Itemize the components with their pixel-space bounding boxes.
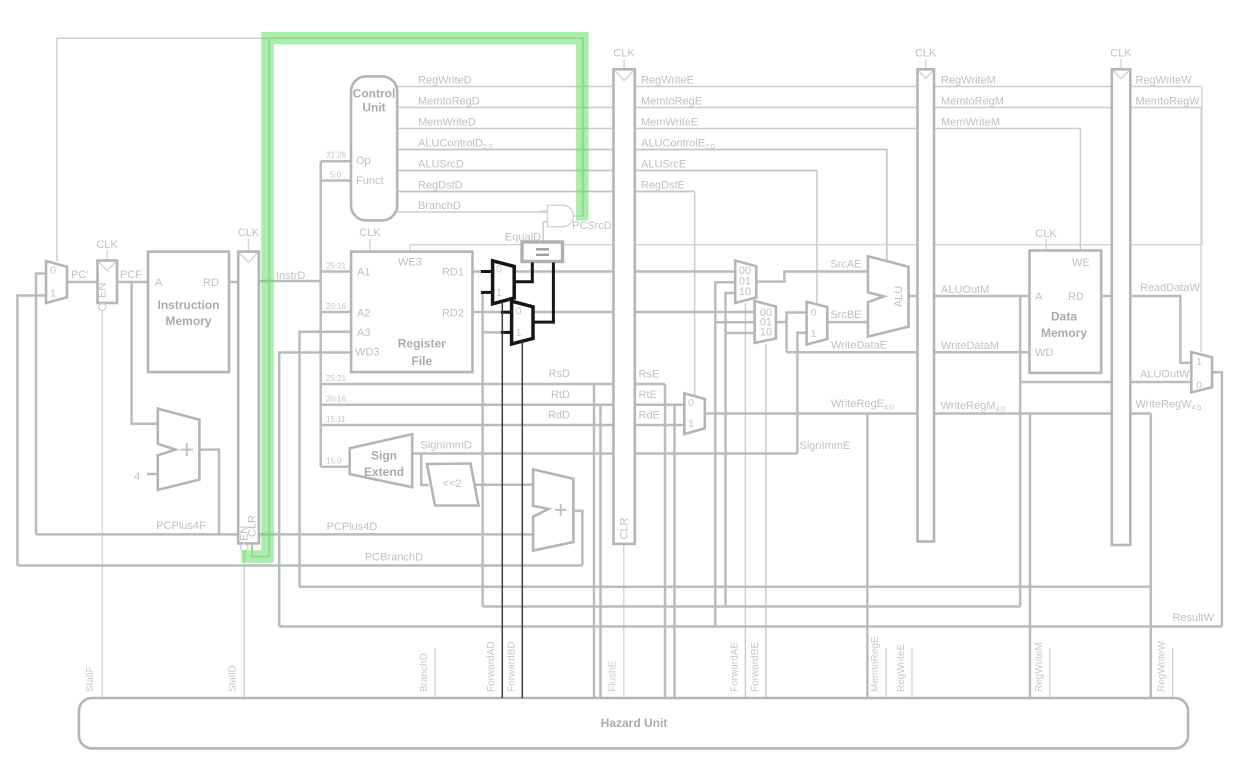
- svg-text:RegWriteM: RegWriteM: [1034, 642, 1045, 692]
- svg-text:<<2: <<2: [443, 478, 462, 490]
- svg-text:20:16: 20:16: [326, 302, 347, 311]
- wire PCPlus4F/PCPlus4D row: [36, 533, 533, 536]
- svg-text:RegDstE: RegDstE: [641, 180, 685, 192]
- wire RegWriteD/E/M/W row: [397, 86, 1202, 88]
- svg-text:SignImmD: SignImmD: [421, 440, 472, 452]
- adder PC+4: [158, 409, 200, 490]
- svg-text:CLK: CLK: [359, 227, 381, 239]
- svg-text:Register: Register: [398, 337, 446, 351]
- svg-text:A1: A1: [357, 267, 370, 279]
- svg-text:EqualD: EqualD: [505, 232, 541, 244]
- svg-text:MemtoRegW: MemtoRegW: [1136, 96, 1201, 108]
- svg-text:EN: EN: [239, 526, 251, 541]
- wire RegDstE select to RegDst mux: [694, 192, 696, 396]
- wire CLK tick ID/EX register: [623, 59, 625, 69]
- svg-text:RsE: RsE: [639, 369, 660, 381]
- svg-text:A: A: [1035, 291, 1043, 303]
- clk triangle MEM/WB: [1113, 71, 1129, 79]
- clk triangle PC register: [99, 262, 116, 271]
- svg-text:Control: Control: [353, 87, 396, 101]
- wire adder output PCPlus4F loop: [199, 450, 219, 535]
- wire ALUOutM decode stub to mux2 input 1: [483, 331, 503, 334]
- wire BranchD row: [397, 211, 548, 213]
- wire RD1 row to forward mux A: [473, 270, 736, 273]
- instruction memory box: [148, 252, 229, 373]
- equality comparator box: [522, 242, 563, 262]
- svg-text:WriteDataM: WriteDataM: [941, 340, 999, 352]
- svg-text:1: 1: [1196, 356, 1202, 368]
- svg-text:BranchD: BranchD: [419, 653, 430, 692]
- highlight green PCSrcD to CLR path: [242, 38, 583, 556]
- svg-text:StallD: StallD: [228, 665, 239, 692]
- svg-text:0: 0: [50, 265, 56, 277]
- mux equality forward B (black): [512, 301, 533, 344]
- control unit rounded box: [351, 76, 397, 220]
- wire PCSrcD to PC mux select: [57, 38, 583, 261]
- wire RegDstD/E row: [397, 191, 695, 193]
- svg-text:ReadDataW: ReadDataW: [1140, 282, 1201, 294]
- wire RsD tap to hazard: [593, 384, 596, 698]
- svg-text:PCPlus4F: PCPlus4F: [156, 520, 206, 532]
- svg-text:WriteRegW4:0: WriteRegW4:0: [1136, 399, 1202, 413]
- mux result (1/0): [1191, 352, 1212, 392]
- plus sign branch adder: [555, 504, 567, 516]
- wire FlushE to ID/EX CLR: [623, 544, 625, 698]
- wire branch adder output PCBranchD loop: [573, 511, 582, 566]
- wire WD3 from ResultW: [279, 353, 351, 627]
- wire ALUSrcE select to SrcB mux: [816, 171, 818, 305]
- svg-text:StallF: StallF: [85, 666, 96, 692]
- wire MemWriteD/E/M row: [397, 128, 1080, 130]
- black stub RD2 into mux B input 0: [501, 311, 512, 314]
- svg-text:0: 0: [811, 307, 817, 319]
- svg-text:FlushE: FlushE: [608, 661, 619, 692]
- svg-text:Op: Op: [356, 155, 371, 167]
- svg-text:RegWriteE: RegWriteE: [896, 644, 907, 692]
- svg-text:MemWriteE: MemWriteE: [641, 117, 698, 129]
- wire WriteRegE from RegDst mux: [705, 412, 1151, 415]
- svg-text:ForwardBD: ForwardBD: [506, 641, 517, 692]
- wire Op field to control unit: [321, 160, 351, 163]
- wire EqualD comparator to AND gate: [543, 222, 547, 241]
- black select ForwardBD to hazard: [521, 342, 523, 698]
- register PC with EN: [98, 261, 118, 304]
- register MEM/WB: [1112, 69, 1131, 545]
- wire constant 4 into adder: [147, 473, 158, 476]
- svg-text:25:21: 25:21: [326, 374, 347, 383]
- wire data memory RD to MEM/WB and ReadDataW: [1101, 296, 1191, 363]
- wire A1 field 25:21: [321, 270, 351, 273]
- svg-text:ForwardAE: ForwardAE: [729, 642, 740, 692]
- svg-text:RegWriteM: RegWriteM: [941, 75, 996, 87]
- svg-text:1: 1: [496, 287, 502, 299]
- wire MemtoRegE hazard stub: [885, 648, 887, 698]
- clk triangle EX/MEM: [919, 71, 933, 79]
- wire CLK tick data memory: [1045, 239, 1047, 251]
- svg-text:MemWriteD: MemWriteD: [418, 117, 476, 129]
- wire ALUOutM feedback row: [483, 605, 1021, 608]
- svg-text:CLK: CLK: [238, 227, 260, 239]
- svg-text:SrcBE: SrcBE: [830, 309, 861, 321]
- svg-text:PCF: PCF: [120, 269, 142, 281]
- wire BranchD into AND gate (drawn via row): [540, 210, 548, 212]
- wire RegWriteM hazard stub: [1049, 648, 1051, 698]
- plus sign PC+4 adder: [181, 443, 194, 456]
- register IF/ID: [238, 252, 259, 544]
- wire PCSrcD branch to IF/ID CLR: [252, 38, 269, 556]
- svg-text:ALUOutW: ALUOutW: [1140, 369, 1190, 381]
- svg-text:0: 0: [516, 306, 522, 318]
- wire ALU output ALUOutM row to data memory A: [909, 295, 1030, 298]
- wire PCPlus4F feedback to PC mux input 0: [36, 274, 46, 535]
- register ID/EX with CLR: [614, 69, 635, 544]
- wire CLK tick IF/ID register: [248, 239, 250, 252]
- wire PCSrcD inside highlight: [252, 38, 583, 556]
- wire BranchD hazard stub: [434, 648, 436, 698]
- svg-text:ResultW: ResultW: [1172, 612, 1214, 624]
- svg-text:CLK: CLK: [1035, 228, 1057, 240]
- svg-text:ALUOutM: ALUOutM: [941, 284, 989, 296]
- sign extend box: [350, 434, 413, 487]
- svg-text:5:0: 5:0: [330, 171, 342, 180]
- wire SrcBE from mux to ALU: [827, 321, 868, 324]
- svg-text:15:11: 15:11: [326, 415, 346, 424]
- svg-text:RegWriteE: RegWriteE: [641, 75, 694, 87]
- wire ALUOutM riser stub to mux B 10: [726, 332, 755, 335]
- wire WriteRegM tap to hazard: [1029, 414, 1032, 699]
- svg-text:Memory: Memory: [165, 314, 211, 328]
- svg-text:RsD: RsD: [549, 368, 570, 380]
- wire RtE tap to hazard: [673, 405, 676, 698]
- wire ALUOutM riser to forward muxes 10: [726, 293, 736, 607]
- black stub RD1 into mux A input 0: [481, 270, 493, 273]
- black wire mux B output to comparator: [533, 263, 553, 323]
- wire A3 from WriteRegW: [300, 332, 352, 587]
- wire WriteRegE tap to hazard: [866, 414, 869, 699]
- wire MemtoRegW select to result mux: [1200, 108, 1202, 353]
- wire Funct field to control unit: [321, 179, 351, 182]
- svg-text:4: 4: [134, 471, 140, 483]
- wire RegWriteE hazard stub: [911, 648, 913, 698]
- svg-text:WriteDataE: WriteDataE: [831, 340, 887, 352]
- svg-text:31:26: 31:26: [326, 151, 347, 160]
- svg-text:RD: RD: [203, 277, 219, 289]
- wire WriteDataE/M row to data memory WD: [787, 351, 1030, 354]
- register file box: [351, 252, 472, 373]
- wire RegWriteW return to register file WE3: [410, 87, 1202, 252]
- wire result mux output to ResultW: [1212, 372, 1222, 626]
- svg-text:File: File: [411, 354, 432, 368]
- equals sign in comparator: [536, 249, 549, 255]
- wire ALUOut jog row into MEM/WB and ALUOutW to result mux: [1020, 381, 1191, 384]
- wire PCBranchD row: [17, 564, 582, 567]
- svg-text:RegDstD: RegDstD: [418, 180, 463, 192]
- svg-text:WE: WE: [1072, 257, 1090, 269]
- wire RsE tap to hazard: [664, 384, 667, 698]
- svg-text:PCSrcD: PCSrcD: [572, 220, 612, 232]
- svg-text:WD: WD: [1035, 347, 1053, 359]
- wire WriteRegW to A3 row: [300, 586, 1151, 589]
- AND gate PCSrcD: [548, 205, 574, 227]
- svg-text:RD1: RD1: [442, 267, 464, 279]
- svg-text:1: 1: [516, 327, 522, 339]
- svg-text:SignImmE: SignImmE: [800, 440, 851, 452]
- svg-text:A: A: [155, 277, 163, 289]
- black wire mux A output to comparator: [514, 263, 532, 282]
- svg-text:CLK: CLK: [1110, 48, 1132, 60]
- svg-text:SrcAE: SrcAE: [830, 259, 861, 271]
- branch adder: [533, 469, 573, 550]
- wire CLK tick EX/MEM register: [925, 59, 927, 69]
- shifter left 2 parallelogram: [427, 464, 479, 506]
- svg-text:ALUControlE2:0: ALUControlE2:0: [641, 138, 715, 152]
- wire ALUControlD/E row: [397, 150, 887, 262]
- black select ForwardAD to hazard: [501, 302, 503, 698]
- svg-text:PCBranchD: PCBranchD: [365, 552, 423, 564]
- svg-text:PCPlus4D: PCPlus4D: [327, 521, 378, 533]
- svg-text:PC': PC': [71, 269, 88, 281]
- svg-text:RD: RD: [1068, 291, 1084, 303]
- mux equality forward A (black): [493, 261, 515, 304]
- wire RegWriteW hazard stub: [1172, 648, 1174, 698]
- svg-text:0: 0: [1196, 380, 1202, 392]
- svg-text:1: 1: [811, 328, 817, 340]
- svg-text:Hazard Unit: Hazard Unit: [601, 716, 668, 730]
- svg-text:WD3: WD3: [355, 347, 379, 359]
- svg-text:A3: A3: [357, 327, 370, 339]
- data memory box: [1030, 251, 1102, 373]
- svg-text:10: 10: [739, 286, 751, 298]
- svg-text:ALU: ALU: [893, 286, 905, 307]
- wire shifter output to branch adder: [475, 483, 534, 486]
- wire InstrD from IF/ID to fanout: [259, 280, 321, 283]
- wire StallD to IF/ID EN: [243, 551, 245, 698]
- svg-text:InstrD: InstrD: [276, 270, 305, 282]
- wire RtD/RtE row to RegDst mux: [321, 403, 685, 406]
- svg-text:CLK: CLK: [613, 48, 635, 60]
- wire ALUSrcD/E row: [397, 170, 817, 172]
- svg-text:ALUSrcE: ALUSrcE: [641, 159, 686, 171]
- svg-text:0: 0: [688, 397, 694, 409]
- wire CLK tick register file: [369, 239, 371, 252]
- wire PCF from PC register to instruction memory: [117, 281, 148, 284]
- wire WriteDataE tap down: [785, 322, 788, 352]
- wire SignImmD/E row: [412, 452, 797, 455]
- wire ForwardAE select from mux to hazard: [744, 304, 746, 699]
- svg-text:RdE: RdE: [639, 410, 660, 422]
- wire ResultW row: [279, 625, 1222, 628]
- svg-text:ForwardAD: ForwardAD: [486, 641, 497, 692]
- svg-text:RtE: RtE: [639, 389, 657, 401]
- wire WriteRegW corner down: [1150, 414, 1153, 699]
- svg-text:EN: EN: [97, 283, 109, 298]
- svg-text:BranchD: BranchD: [418, 200, 461, 212]
- wire instruction memory RD to IF/ID: [229, 281, 238, 284]
- wire ALUOutM feedback tap down: [1019, 296, 1022, 607]
- svg-text:CLK: CLK: [96, 239, 118, 251]
- svg-text:0: 0: [496, 264, 502, 276]
- svg-text:MemtoRegM: MemtoRegM: [941, 96, 1004, 108]
- svg-text:1: 1: [50, 288, 56, 300]
- svg-text:A2: A2: [357, 308, 370, 320]
- clk triangle IF/ID: [240, 253, 258, 262]
- wire MemWriteM to data memory WE: [1079, 129, 1081, 251]
- wire SignImmD tap to shifter: [421, 454, 428, 486]
- wire PCBranchD feedback to PC mux input 1: [17, 296, 46, 566]
- svg-text:RegWriteW: RegWriteW: [1136, 75, 1193, 87]
- bubble EN PC register: [99, 303, 106, 310]
- svg-text:CLR: CLR: [619, 517, 631, 539]
- wire MemtoRegD/E/M/W row: [397, 107, 1201, 109]
- svg-text:20:16: 20:16: [326, 395, 347, 404]
- register EX/MEM: [918, 69, 935, 541]
- svg-text:Sign: Sign: [371, 449, 397, 463]
- wire InstrD vertical fanout: [319, 161, 322, 466]
- svg-text:Funct: Funct: [356, 175, 384, 187]
- wire CLK tick PC register: [106, 250, 108, 261]
- svg-text:Memory: Memory: [1041, 326, 1087, 340]
- svg-text:RegWriteW: RegWriteW: [1157, 641, 1168, 692]
- mux ALUSrc (0/1): [807, 302, 828, 345]
- wire StallF to PC register EN: [101, 311, 103, 698]
- svg-text:WE3: WE3: [398, 257, 422, 269]
- wire SrcAE elbow from forward mux A to ALU: [756, 272, 868, 282]
- wire A2 field 20:16: [321, 311, 351, 314]
- wire 15:0 field to sign extend: [321, 465, 350, 468]
- wire forward mux B output elbow to SrcB mux: [776, 313, 807, 323]
- svg-text:Unit: Unit: [362, 101, 385, 115]
- svg-text:10: 10: [760, 326, 772, 338]
- ALU: [868, 256, 909, 336]
- black stub ALUOutM into mux B input 1: [501, 331, 512, 334]
- wire PCF tap down to PC+4 adder: [132, 282, 158, 424]
- svg-text:MemtoRegD: MemtoRegD: [418, 96, 480, 108]
- bubble EN IF/ID: [241, 544, 248, 551]
- wire RdD/RdE row to RegDst mux: [321, 424, 685, 427]
- svg-text:RegWriteD: RegWriteD: [418, 75, 472, 87]
- wire ALUOutM decode riser to equality muxes: [481, 292, 484, 606]
- hazard unit rounded box: [79, 698, 1188, 748]
- svg-text:Extend: Extend: [364, 465, 404, 479]
- wire CLK tick MEM/WB register: [1120, 59, 1122, 69]
- svg-text:RtD: RtD: [551, 389, 570, 401]
- mux forward A (00/01/10): [735, 261, 756, 303]
- svg-text:ALUSrcD: ALUSrcD: [418, 159, 464, 171]
- wire PC' from mux to PC register: [67, 281, 98, 284]
- svg-text:15:0: 15:0: [326, 457, 342, 466]
- mux PC source (0/1): [46, 261, 67, 303]
- mux RegDst (0/1): [684, 393, 705, 434]
- clk triangle ID/EX: [615, 71, 633, 81]
- svg-text:MemWriteM: MemWriteM: [941, 117, 1000, 129]
- wire ResultW riser stub to mux B 01: [715, 321, 754, 324]
- svg-text:RD2: RD2: [442, 308, 464, 320]
- svg-text:ForwardBE: ForwardBE: [750, 642, 761, 692]
- svg-text:MemtoRegE: MemtoRegE: [870, 636, 881, 692]
- wire SignImmE riser to SrcB mux input 1: [797, 333, 806, 454]
- svg-text:CLK: CLK: [915, 48, 937, 60]
- svg-text:MemtoRegE: MemtoRegE: [641, 96, 702, 108]
- wire RsD/RsE row: [321, 383, 665, 386]
- svg-text:ALUControlD2:0: ALUControlD2:0: [418, 138, 493, 152]
- svg-text:25:21: 25:21: [326, 262, 347, 271]
- mux forward B (00/01/10): [755, 301, 776, 343]
- black stub ALUOutM into mux A input 1: [481, 291, 493, 294]
- wire ForwardBE select from mux to hazard: [765, 344, 767, 699]
- svg-text:RdD: RdD: [548, 410, 570, 422]
- svg-text:Instruction: Instruction: [158, 298, 220, 312]
- wire RD2 row to forward mux B: [473, 311, 755, 314]
- wire RtD tap to hazard: [599, 405, 602, 698]
- wire ResultW riser to forward muxes 01: [715, 282, 735, 626]
- svg-text:1: 1: [688, 418, 694, 430]
- svg-text:Data: Data: [1051, 310, 1077, 324]
